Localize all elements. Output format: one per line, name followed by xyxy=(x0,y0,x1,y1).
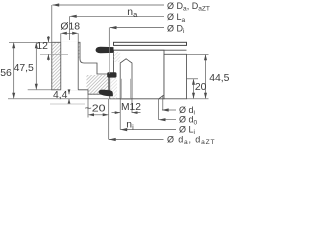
svg-text:M12: M12 xyxy=(121,102,141,113)
svg-text:12: 12 xyxy=(36,41,48,52)
svg-text:47,5: 47,5 xyxy=(14,63,34,74)
svg-text:56: 56 xyxy=(0,68,12,79)
svg-text:44,5: 44,5 xyxy=(209,73,229,84)
svg-text:20: 20 xyxy=(195,82,207,93)
svg-text:Ø Di: Ø Di xyxy=(167,23,185,35)
svg-text:~20: ~20 xyxy=(85,103,106,114)
svg-text:Ø18: Ø18 xyxy=(60,21,80,32)
svg-text:4,4: 4,4 xyxy=(53,90,68,101)
